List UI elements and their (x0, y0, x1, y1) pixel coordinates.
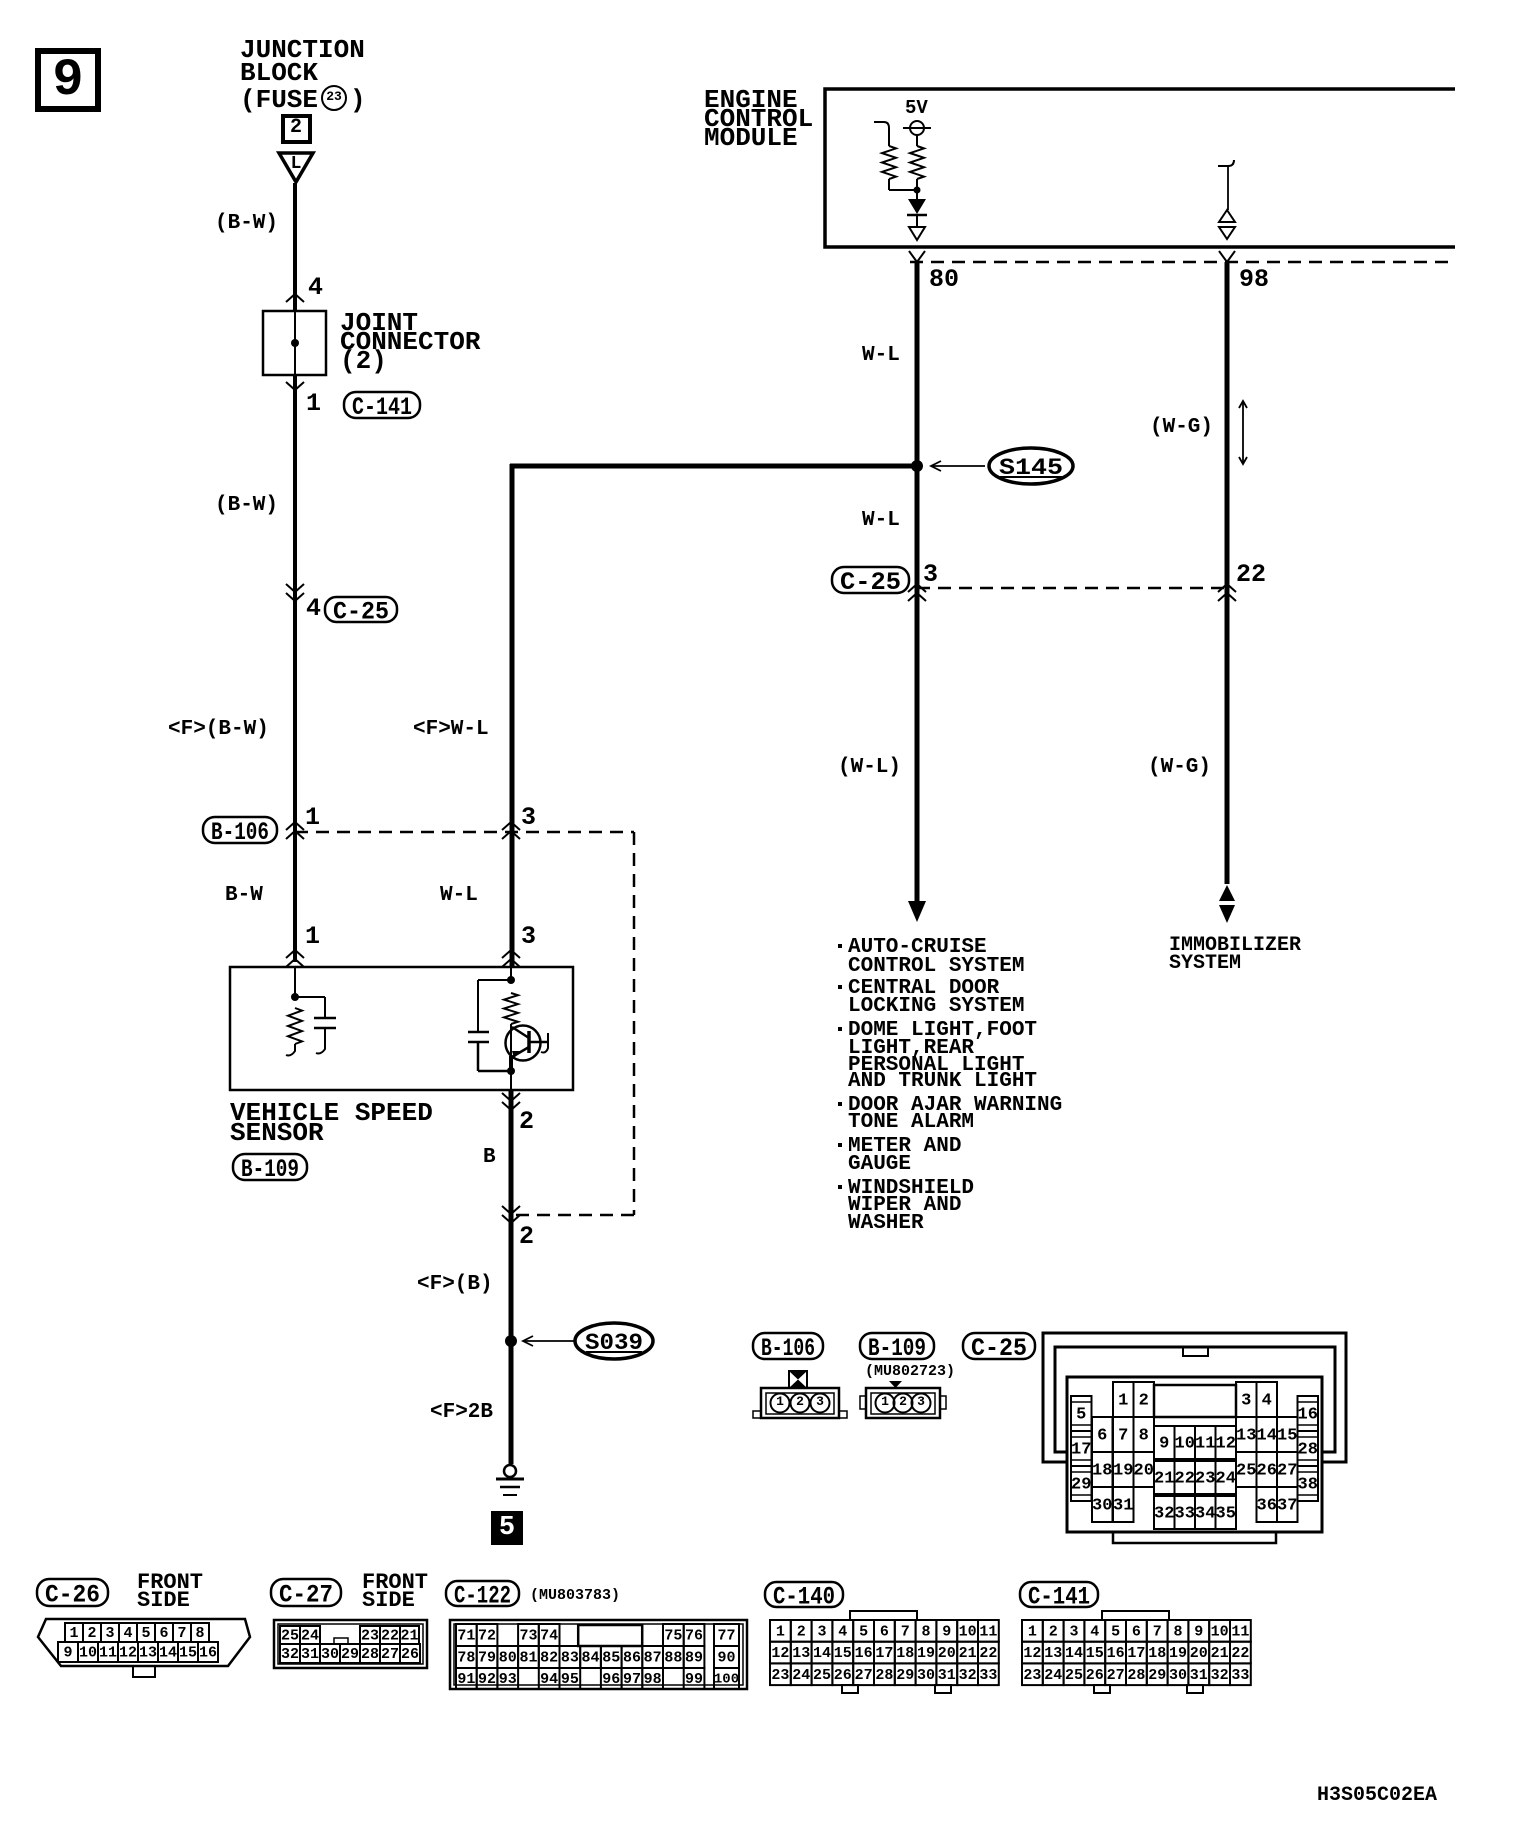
svg-text:13: 13 (139, 1645, 157, 1662)
arrow end W-L to systems (908, 901, 926, 922)
svg-text:19: 19 (1169, 1645, 1187, 1662)
svg-text:1: 1 (306, 389, 321, 418)
svg-text:15: 15 (834, 1645, 852, 1662)
transistor Q1 (506, 1024, 549, 1071)
page number box 9 (38, 51, 98, 110)
svg-text:15: 15 (1086, 1645, 1104, 1662)
svg-text:9: 9 (1159, 1434, 1169, 1453)
splice S145 arrow (931, 465, 985, 467)
svg-text:71: 71 (457, 1628, 475, 1645)
svg-text:77: 77 (717, 1628, 735, 1645)
5V supply circle (910, 121, 924, 135)
svg-text:25: 25 (281, 1628, 299, 1645)
svg-text:MODULE: MODULE (704, 123, 798, 153)
svg-text:24: 24 (1044, 1667, 1062, 1684)
svg-text:80: 80 (929, 265, 959, 294)
svg-text:C-141: C-141 (352, 393, 412, 422)
svg-text:38: 38 (1298, 1475, 1318, 1494)
connector label C-141 (344, 392, 420, 422)
svg-text:2: 2 (796, 1394, 804, 1409)
connector label C-25 left (325, 597, 397, 627)
svg-text:20: 20 (938, 1645, 956, 1662)
svg-text:(B-W): (B-W) (215, 494, 278, 517)
front side label C-26 (137, 1570, 203, 1613)
svg-text:13: 13 (792, 1645, 810, 1662)
ECM connector dashed line (910, 261, 1455, 264)
capacitor C1 tail (316, 1028, 325, 1054)
svg-text:17: 17 (875, 1645, 893, 1662)
svg-text:4: 4 (306, 594, 321, 623)
svg-text:GAUGE: GAUGE (848, 1153, 911, 1176)
connector C-27 drawing (274, 1620, 427, 1668)
svg-text:98: 98 (644, 1671, 662, 1688)
terminal chevrons below sensor (502, 1093, 520, 1101)
svg-text:W-L: W-L (862, 344, 900, 367)
svg-text:1: 1 (881, 1394, 889, 1409)
svg-text:(W-G): (W-G) (1150, 416, 1213, 439)
svg-text:29: 29 (1071, 1475, 1091, 1494)
svg-text:82: 82 (540, 1650, 558, 1667)
svg-text:27: 27 (1107, 1667, 1125, 1684)
internal output arrow pin 80 (909, 227, 925, 240)
svg-text:<F>2B: <F>2B (430, 1401, 493, 1424)
svg-text:1: 1 (1028, 1623, 1037, 1640)
svg-text:B-106: B-106 (211, 818, 269, 847)
svg-text:25: 25 (1236, 1461, 1256, 1480)
connector C-140 drawing (770, 1611, 999, 1693)
svg-text:24: 24 (792, 1667, 810, 1684)
svg-text:(W-L): (W-L) (838, 756, 901, 779)
svg-text:4: 4 (1262, 1391, 1272, 1410)
svg-text:2: 2 (1049, 1623, 1058, 1640)
svg-text:30: 30 (1169, 1667, 1187, 1684)
svg-text:37: 37 (1277, 1496, 1297, 1515)
svg-text:80: 80 (499, 1650, 517, 1667)
svg-text:W-L: W-L (862, 509, 900, 532)
system list (838, 936, 1062, 1235)
svg-text:3: 3 (105, 1625, 114, 1642)
connector C-122 drawing (450, 1620, 747, 1689)
vehicle speed sensor box B-109 (230, 967, 573, 1090)
svg-text:97: 97 (623, 1671, 641, 1688)
svg-text:(MU803783): (MU803783) (530, 1587, 620, 1604)
svg-text:19: 19 (917, 1645, 935, 1662)
dashed harness line vertical (633, 832, 636, 1215)
svg-text:<F>(B-W): <F>(B-W) (168, 718, 269, 741)
svg-text:95: 95 (561, 1671, 579, 1688)
svg-text:9: 9 (63, 1645, 72, 1662)
svg-text:79: 79 (478, 1650, 496, 1667)
svg-text:25: 25 (1065, 1667, 1083, 1684)
svg-text:87: 87 (644, 1650, 662, 1667)
svg-text:10: 10 (959, 1623, 977, 1640)
svg-text:AND TRUNK LIGHT: AND TRUNK LIGHT (848, 1070, 1037, 1093)
svg-text:10: 10 (1175, 1434, 1195, 1453)
svg-text:99: 99 (685, 1671, 703, 1688)
arrow end W-G immobilizer (1219, 885, 1235, 901)
svg-text:13: 13 (1044, 1645, 1062, 1662)
svg-text:(MU802723): (MU802723) (865, 1363, 955, 1380)
splice S039 label (575, 1323, 653, 1359)
svg-text:1: 1 (69, 1625, 78, 1642)
svg-text:26: 26 (401, 1646, 419, 1663)
svg-text:9: 9 (52, 51, 83, 110)
svg-text:20: 20 (1134, 1461, 1154, 1480)
svg-text:31: 31 (1113, 1496, 1133, 1515)
svg-text:7: 7 (177, 1625, 186, 1642)
svg-text:5: 5 (859, 1623, 868, 1640)
svg-text:11: 11 (1231, 1623, 1249, 1640)
svg-text:9: 9 (1194, 1623, 1203, 1640)
splice S039 node (505, 1335, 517, 1347)
svg-text:BLOCK: BLOCK (240, 58, 318, 88)
svg-text:12: 12 (1023, 1645, 1041, 1662)
svg-text:SYSTEM: SYSTEM (1169, 952, 1241, 975)
svg-text:89: 89 (685, 1650, 703, 1667)
svg-text:21: 21 (400, 1628, 418, 1645)
splice S039 arrow (524, 1340, 576, 1342)
svg-text:21: 21 (1154, 1469, 1174, 1488)
svg-text:1: 1 (776, 1394, 784, 1409)
svg-text:22: 22 (381, 1628, 399, 1645)
terminal chevrons B-106 right (502, 822, 520, 830)
svg-text:19: 19 (1113, 1461, 1133, 1480)
wire W-L pin 80 (915, 262, 920, 903)
svg-text:C-27: C-27 (279, 1581, 333, 1610)
svg-text:33: 33 (1175, 1504, 1195, 1523)
connector label B-106 left (203, 817, 277, 847)
internal left resistor (882, 146, 896, 179)
svg-text:CONTROL SYSTEM: CONTROL SYSTEM (848, 955, 1024, 978)
svg-text:6: 6 (1132, 1623, 1141, 1640)
engine control module box U1 (825, 89, 1455, 247)
svg-text:2: 2 (1139, 1391, 1149, 1410)
svg-text:81: 81 (519, 1650, 537, 1667)
svg-text:C-122: C-122 (454, 1582, 511, 1611)
svg-text:18: 18 (896, 1645, 914, 1662)
svg-text:94: 94 (540, 1671, 558, 1688)
connector label B-109 bottom (860, 1333, 934, 1363)
svg-text:16: 16 (1107, 1645, 1125, 1662)
connector B-109 drawing (860, 1381, 946, 1418)
svg-text:23: 23 (326, 89, 342, 104)
svg-text:L: L (291, 154, 302, 174)
svg-text:26: 26 (1086, 1667, 1104, 1684)
svg-text:B-106: B-106 (761, 1334, 815, 1363)
capacitor C1 (314, 1017, 336, 1020)
svg-text:22: 22 (1175, 1469, 1195, 1488)
svg-text:35: 35 (1216, 1504, 1236, 1523)
svg-text:7: 7 (1153, 1623, 1162, 1640)
svg-text:1: 1 (776, 1623, 785, 1640)
svg-text:B: B (483, 1146, 496, 1169)
svg-text:(2): (2) (340, 346, 387, 376)
svg-text:10: 10 (79, 1645, 97, 1662)
svg-text:2: 2 (87, 1625, 96, 1642)
svg-text:22: 22 (1236, 560, 1266, 589)
svg-text:83: 83 (561, 1650, 579, 1667)
sensor internal resistor tail (286, 1044, 295, 1056)
wire F 2B (509, 1341, 514, 1464)
svg-text:23: 23 (1195, 1469, 1215, 1488)
terminal chevrons C-25 pin22 (1218, 584, 1236, 592)
svg-text:16: 16 (855, 1645, 873, 1662)
wire W-G pin 98 (1225, 262, 1230, 884)
svg-text:15: 15 (179, 1645, 197, 1662)
svg-text:15: 15 (1277, 1426, 1297, 1445)
svg-text:8: 8 (921, 1623, 930, 1640)
svg-text:88: 88 (664, 1650, 682, 1667)
svg-text:25: 25 (813, 1667, 831, 1684)
internal left resistor branch (874, 122, 889, 146)
svg-text:<F>W-L: <F>W-L (413, 718, 489, 741)
svg-text:28: 28 (1127, 1667, 1145, 1684)
svg-text:11: 11 (99, 1645, 117, 1662)
svg-text:92: 92 (478, 1671, 496, 1688)
svg-text:32: 32 (1211, 1667, 1229, 1684)
connector triangle L (279, 153, 313, 182)
terminal chevrons at dashed crossing (502, 1206, 520, 1214)
svg-text:30: 30 (1092, 1496, 1112, 1515)
terminal chevrons B-106 left (286, 822, 304, 830)
svg-text:): ) (350, 85, 366, 115)
svg-text:14: 14 (159, 1645, 177, 1662)
terminal chevrons sensor pin3 (502, 950, 520, 958)
sensor internal resistor R2 (504, 993, 518, 1024)
svg-text:C-141: C-141 (1028, 1583, 1090, 1612)
svg-text:B-W: B-W (225, 884, 263, 907)
svg-text:27: 27 (855, 1667, 873, 1684)
svg-text:72: 72 (478, 1628, 496, 1645)
svg-text:32: 32 (959, 1667, 977, 1684)
connector C-26 drawing (38, 1619, 250, 1677)
svg-text:3: 3 (817, 1623, 826, 1640)
svg-text:23: 23 (1023, 1667, 1041, 1684)
svg-text:6: 6 (159, 1625, 168, 1642)
svg-text:3: 3 (521, 922, 536, 951)
svg-text:W-L: W-L (440, 884, 478, 907)
svg-text:3: 3 (1069, 1623, 1078, 1640)
svg-text:75: 75 (664, 1628, 682, 1645)
svg-text:12: 12 (771, 1645, 789, 1662)
terminal V pin 80 (909, 251, 925, 262)
svg-text:H3S05C02EA: H3S05C02EA (1317, 1784, 1437, 1807)
svg-text:2: 2 (797, 1623, 806, 1640)
svg-text:98: 98 (1239, 265, 1269, 294)
svg-text:22: 22 (1231, 1645, 1249, 1662)
connector label B-109 left (233, 1154, 307, 1184)
sensor name label (230, 1098, 433, 1148)
splice S145 label (989, 448, 1073, 484)
svg-text:LOCKING SYSTEM: LOCKING SYSTEM (848, 995, 1024, 1018)
svg-text:73: 73 (519, 1628, 537, 1645)
svg-text:86: 86 (623, 1650, 641, 1667)
svg-text:33: 33 (1231, 1667, 1249, 1684)
svg-text:7: 7 (1118, 1426, 1128, 1445)
connector label B-106 bottom (753, 1333, 823, 1363)
connector C-25 drawing (1043, 1333, 1346, 1543)
svg-text:SIDE: SIDE (137, 1588, 190, 1613)
sensor internal capacitor C1 branch (295, 996, 325, 998)
terminal chevrons at C-25 (286, 584, 304, 592)
splice S145 node (911, 460, 923, 472)
svg-text:27: 27 (381, 1646, 399, 1663)
svg-text:30: 30 (321, 1646, 339, 1663)
svg-text:96: 96 (602, 1671, 620, 1688)
svg-text:8: 8 (195, 1625, 204, 1642)
svg-text:9: 9 (942, 1623, 951, 1640)
front side label C-27 (362, 1570, 428, 1613)
svg-text:2: 2 (519, 1107, 534, 1136)
sensor pin1 internal wire (294, 967, 296, 997)
connector B-106 drawing (753, 1371, 847, 1418)
double arrow W-G (1242, 402, 1244, 463)
svg-text:90: 90 (717, 1650, 735, 1667)
svg-text:5: 5 (141, 1625, 150, 1642)
svg-text:1: 1 (305, 803, 320, 832)
svg-text:2: 2 (519, 1222, 534, 1251)
svg-text:1: 1 (305, 922, 320, 951)
svg-text:16: 16 (1298, 1405, 1318, 1424)
svg-text:3: 3 (1241, 1391, 1251, 1410)
svg-text:31: 31 (938, 1667, 956, 1684)
terminal chevron pin 4 (286, 294, 304, 302)
svg-text:2: 2 (290, 116, 302, 139)
svg-text:28: 28 (1298, 1440, 1318, 1459)
svg-text:SIDE: SIDE (362, 1588, 415, 1613)
svg-text:5: 5 (499, 1513, 515, 1543)
svg-text:7: 7 (901, 1623, 910, 1640)
svg-text:5V: 5V (905, 97, 928, 119)
terminal V pin 98 (1219, 251, 1235, 262)
wire F B-W (293, 592, 297, 962)
svg-text:18: 18 (1148, 1645, 1166, 1662)
svg-text:76: 76 (685, 1628, 703, 1645)
svg-text:18: 18 (1092, 1461, 1112, 1480)
svg-text:23: 23 (771, 1667, 789, 1684)
svg-text:13: 13 (1236, 1426, 1256, 1445)
svg-text:17: 17 (1127, 1645, 1145, 1662)
svg-text:32: 32 (281, 1646, 299, 1663)
junction block label (240, 35, 366, 115)
svg-text:5: 5 (1111, 1623, 1120, 1640)
svg-text:17: 17 (1071, 1440, 1091, 1459)
svg-text:3: 3 (923, 560, 938, 589)
svg-text:4: 4 (308, 273, 323, 302)
svg-text:6: 6 (880, 1623, 889, 1640)
svg-text:21: 21 (1211, 1645, 1229, 1662)
svg-text:B-109: B-109 (868, 1334, 926, 1363)
connector label C-27 (271, 1579, 341, 1610)
svg-text:(FUSE: (FUSE (240, 85, 318, 115)
svg-text:SENSOR: SENSOR (230, 1118, 324, 1148)
svg-text:C-25: C-25 (840, 568, 901, 597)
svg-text:84: 84 (582, 1650, 600, 1667)
svg-text:24: 24 (1216, 1469, 1236, 1488)
dashed harness line B-106 (295, 831, 634, 834)
capacitor C2 lower branch (477, 1042, 480, 1071)
sensor internal node (291, 993, 299, 1001)
terminal arrow below joint connector (286, 382, 304, 390)
sensor pin3 internal wire (510, 967, 512, 980)
internal pin 98 hook (1218, 160, 1234, 166)
svg-text:34: 34 (1195, 1504, 1215, 1523)
svg-text:10: 10 (1211, 1623, 1229, 1640)
svg-text:3: 3 (521, 803, 536, 832)
svg-text:29: 29 (896, 1667, 914, 1684)
wire B-W from junction block (293, 183, 297, 311)
svg-text:12: 12 (119, 1645, 137, 1662)
svg-text:36: 36 (1257, 1496, 1277, 1515)
joint connector label (340, 308, 481, 376)
ground reference box 5 (492, 1512, 522, 1544)
sensor node pin3 (507, 976, 515, 984)
svg-text:3: 3 (917, 1394, 925, 1409)
ground symbol (496, 1465, 524, 1495)
svg-text:100: 100 (714, 1671, 739, 1687)
internal wire 5V to resistor (916, 135, 918, 146)
svg-text:85: 85 (602, 1650, 620, 1667)
svg-text:16: 16 (199, 1645, 217, 1662)
svg-text:C-25: C-25 (333, 598, 389, 627)
svg-text:11: 11 (979, 1623, 997, 1640)
joint connector box (263, 311, 326, 375)
svg-text:21: 21 (959, 1645, 977, 1662)
svg-text:B-109: B-109 (241, 1155, 299, 1184)
connector label C-141 (1020, 1582, 1098, 1612)
svg-text:1: 1 (1118, 1391, 1128, 1410)
svg-text:11: 11 (1195, 1434, 1215, 1453)
internal junction node (914, 187, 921, 194)
fuse terminal box 2 (283, 116, 310, 142)
svg-text:14: 14 (813, 1645, 831, 1662)
immobilizer system label (1169, 934, 1301, 975)
svg-text:TONE ALARM: TONE ALARM (848, 1111, 974, 1134)
svg-text:6: 6 (1097, 1426, 1107, 1445)
connector label C-122 (446, 1581, 519, 1611)
svg-text:4: 4 (123, 1625, 132, 1642)
connector label C-25 at ECM (832, 567, 909, 597)
capacitor C2 (468, 1031, 489, 1034)
svg-text:32: 32 (1154, 1504, 1174, 1523)
svg-text:31: 31 (1190, 1667, 1208, 1684)
terminal chevrons sensor pin1 (286, 950, 304, 958)
svg-text:14: 14 (1257, 1426, 1277, 1445)
svg-text:29: 29 (341, 1646, 359, 1663)
sensor internal resistor R1 (288, 1008, 302, 1044)
svg-text:(W-G): (W-G) (1148, 756, 1211, 779)
svg-text:27: 27 (1277, 1461, 1297, 1480)
svg-text:78: 78 (457, 1650, 475, 1667)
svg-text:12: 12 (1216, 1434, 1236, 1453)
svg-text:26: 26 (834, 1667, 852, 1684)
internal diode D1 (908, 199, 926, 214)
svg-text:28: 28 (361, 1646, 379, 1663)
svg-text:20: 20 (1190, 1645, 1208, 1662)
svg-text:8: 8 (1139, 1426, 1149, 1445)
svg-text:74: 74 (540, 1628, 558, 1645)
wire W-L branch to sensor (510, 464, 515, 967)
svg-text:(B-W): (B-W) (215, 212, 278, 235)
svg-text:C-25: C-25 (971, 1334, 1027, 1363)
svg-text:93: 93 (499, 1671, 517, 1688)
internal pull-up resistor (910, 146, 924, 179)
connector label C-26 (37, 1579, 108, 1610)
connector label C-25 bottom (963, 1333, 1035, 1363)
dashed line C-25 (917, 587, 1227, 590)
engine control module label (704, 85, 813, 153)
svg-text:91: 91 (457, 1671, 475, 1688)
